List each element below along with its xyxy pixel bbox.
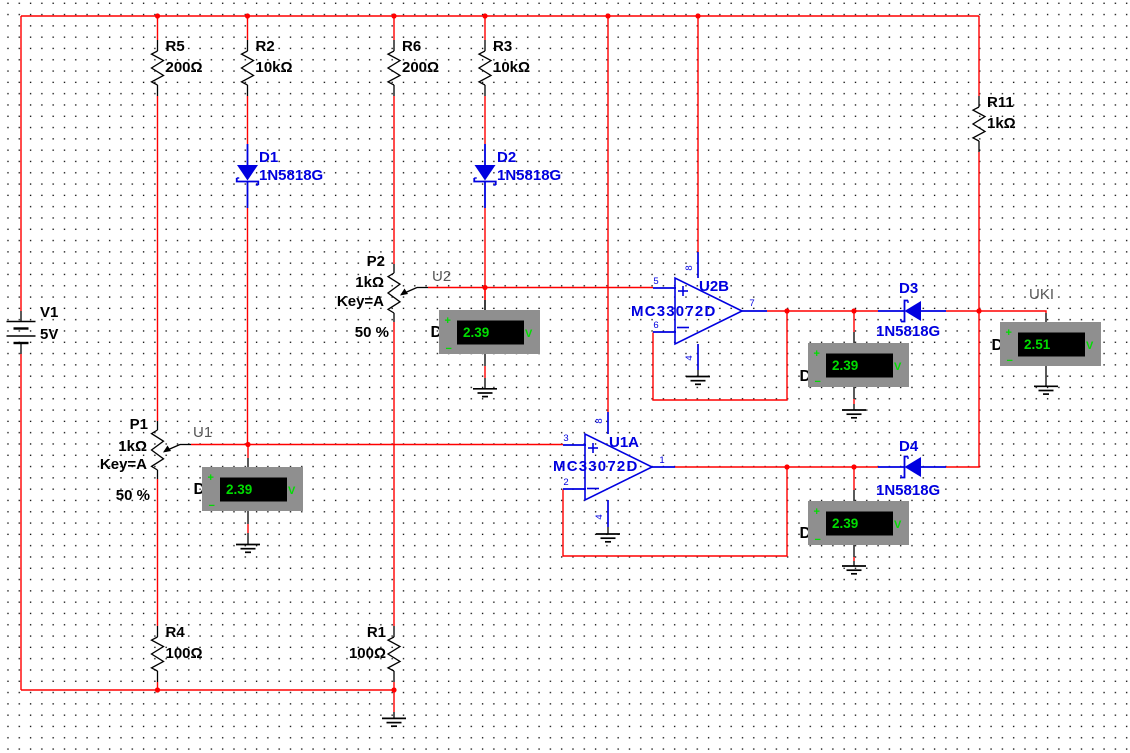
wire R5 to P1 <box>157 96 159 421</box>
wire U2B output <box>767 310 878 312</box>
wire U1A output <box>675 466 878 468</box>
net label U1 <box>193 424 212 441</box>
svg-text:1N5818G: 1N5818G <box>876 482 940 499</box>
junction top U1A power <box>605 13 610 18</box>
junction node UKI <box>976 308 981 313</box>
wire V1 to bottom <box>20 354 22 690</box>
svg-text:1N5818G: 1N5818G <box>497 167 561 184</box>
svg-text:8: 8 <box>684 265 695 270</box>
svg-text:2.39: 2.39 <box>832 358 858 373</box>
svg-text:1: 1 <box>659 455 664 466</box>
wire column R2 top <box>247 16 249 40</box>
svg-text:V1: V1 <box>40 304 58 321</box>
svg-text:+: + <box>445 315 451 327</box>
svg-text:4: 4 <box>594 514 605 519</box>
wire column U1A power <box>607 16 609 412</box>
net label UKI <box>1029 286 1054 303</box>
svg-text:50 %: 50 % <box>355 324 389 341</box>
svg-text:V: V <box>894 361 902 373</box>
wire column R5 top <box>157 16 159 40</box>
svg-text:D3: D3 <box>899 280 918 297</box>
svg-text:200Ω: 200Ω <box>166 59 203 76</box>
ground voltmeter U1A output <box>842 545 866 574</box>
junction U1A output voltmeter <box>851 464 856 469</box>
svg-text:+: + <box>814 506 820 518</box>
svg-text:Key=A: Key=A <box>337 293 384 310</box>
svg-text:1N5818G: 1N5818G <box>259 167 323 184</box>
potentiometer P1 <box>100 416 164 504</box>
ground U1A pin4 <box>596 527 620 542</box>
resistor R5 <box>152 38 203 96</box>
wire D1 to node U1 <box>247 208 249 445</box>
resistor R6 <box>388 38 439 96</box>
junction U1A output feedback <box>784 464 789 469</box>
svg-text:P2: P2 <box>367 253 385 270</box>
junction top U2B power <box>695 13 700 18</box>
wire R6 to P2 <box>393 96 395 264</box>
wire top bus <box>21 15 979 17</box>
svg-text:1kΩ: 1kΩ <box>118 438 147 455</box>
wire column R6 top <box>393 16 395 40</box>
svg-text:R3: R3 <box>493 38 512 55</box>
diode D3 <box>876 280 946 340</box>
svg-text:V: V <box>894 519 902 531</box>
ground R1 <box>382 718 406 726</box>
potentiometer P2 <box>337 253 400 341</box>
svg-text:2.39: 2.39 <box>226 482 252 497</box>
svg-text:V: V <box>288 485 296 497</box>
ground U2B pin4 <box>686 370 710 384</box>
svg-text:100Ω: 100Ω <box>166 645 203 662</box>
wire D2 to node U2 <box>484 208 486 310</box>
junction top R3 <box>482 13 487 18</box>
svg-text:Key=A: Key=A <box>100 456 147 473</box>
resistor R4 <box>152 624 203 682</box>
svg-text:+: + <box>1006 327 1012 339</box>
svg-text:100Ω: 100Ω <box>349 645 386 662</box>
svg-text:−: − <box>209 500 215 512</box>
resistor R1 <box>349 624 400 682</box>
svg-text:1N5818G: 1N5818G <box>876 323 940 340</box>
svg-text:R11: R11 <box>987 94 1014 111</box>
wire R2 to D1 <box>247 96 249 144</box>
svg-text:−: − <box>1007 355 1013 367</box>
svg-text:50 %: 50 % <box>116 487 150 504</box>
svg-text:R5: R5 <box>166 38 185 55</box>
resistor R11 <box>973 94 1016 152</box>
wire column U2B power <box>697 16 699 252</box>
svg-text:2.39: 2.39 <box>463 325 489 340</box>
junction top R5 <box>155 13 160 18</box>
svg-text:−: − <box>446 343 452 355</box>
wire column R11 top <box>978 16 980 96</box>
diode D1 <box>237 144 323 208</box>
wire R4 to bottom bus <box>157 682 159 690</box>
svg-text:2.51: 2.51 <box>1024 337 1051 352</box>
wire D3 to node UKI <box>946 310 979 312</box>
svg-text:2.39: 2.39 <box>832 516 858 531</box>
svg-text:5: 5 <box>653 276 658 287</box>
svg-text:10kΩ: 10kΩ <box>256 59 293 76</box>
svg-text:R4: R4 <box>166 624 186 641</box>
voltmeter UKI <box>992 322 1102 367</box>
svg-text:+: + <box>208 472 214 484</box>
wire bottom bus <box>21 689 394 691</box>
svg-text:U2B: U2B <box>699 278 729 295</box>
svg-text:U2: U2 <box>432 268 451 285</box>
svg-text:8: 8 <box>594 418 605 423</box>
voltmeter U2B output <box>800 311 910 388</box>
svg-text:U1: U1 <box>193 424 212 441</box>
svg-text:1kΩ: 1kΩ <box>987 115 1016 132</box>
junction top R2 <box>245 13 250 18</box>
junction node U2 wiper <box>482 285 487 290</box>
wire column R3 top <box>484 16 486 40</box>
svg-text:10kΩ: 10kΩ <box>493 59 530 76</box>
svg-text:MC33072D: MC33072D <box>553 458 638 475</box>
svg-text:D4: D4 <box>899 438 919 455</box>
wire node UKI to R11 and D4 <box>946 152 979 467</box>
svg-text:−: − <box>815 376 821 388</box>
svg-text:V: V <box>525 328 533 340</box>
ground voltmeter UKI <box>1034 366 1058 394</box>
svg-text:MC33072D: MC33072D <box>631 303 716 320</box>
svg-text:U1A: U1A <box>609 434 639 451</box>
svg-text:5V: 5V <box>40 326 58 343</box>
resistor R2 <box>242 38 293 96</box>
wire P1 to R4 <box>157 479 159 626</box>
resistor R3 <box>479 38 530 96</box>
op-amp U1A <box>553 412 675 527</box>
svg-text:2: 2 <box>563 477 568 488</box>
svg-text:V: V <box>1086 340 1094 352</box>
svg-text:6: 6 <box>653 320 658 331</box>
ground voltmeter U2B output <box>842 387 866 418</box>
diode D2 <box>474 144 561 208</box>
op-amp U2B <box>631 252 767 370</box>
svg-text:D1: D1 <box>259 149 278 166</box>
svg-text:200Ω: 200Ω <box>402 59 439 76</box>
voltmeter U1A output <box>800 467 910 546</box>
svg-text:7: 7 <box>749 298 754 309</box>
junction top R6 <box>391 13 396 18</box>
svg-text:1kΩ: 1kΩ <box>355 274 384 291</box>
battery V1 <box>7 304 59 354</box>
svg-text:R1: R1 <box>367 624 386 641</box>
wire R3 to D2 <box>484 96 486 144</box>
wire node UKI to voltmeter <box>979 311 1046 322</box>
wire P2 wiper to U2B pin5 <box>400 288 653 296</box>
diode D4 <box>876 438 946 499</box>
svg-text:+: + <box>814 348 820 360</box>
wire P1 wiper to U1A pin3 <box>163 445 563 453</box>
svg-text:D2: D2 <box>497 149 516 166</box>
junction U2B output feedback <box>784 308 789 313</box>
junction bottom R4 <box>155 687 160 692</box>
wire P2 to R1 <box>393 322 395 626</box>
junction bottom R1 <box>391 687 396 692</box>
wire R1 ground stub <box>393 690 395 718</box>
wire U1A feedback <box>563 467 787 556</box>
ground voltmeter U1 <box>236 511 260 552</box>
svg-text:UKI: UKI <box>1029 286 1054 303</box>
svg-text:R2: R2 <box>256 38 275 55</box>
wire R1 to bottom bus <box>393 682 395 690</box>
junction U2B output voltmeter <box>851 308 856 313</box>
ground voltmeter U2 <box>473 354 497 397</box>
svg-text:R6: R6 <box>402 38 421 55</box>
svg-text:−: − <box>815 534 821 546</box>
svg-text:P1: P1 <box>130 416 148 433</box>
wire U2B feedback <box>653 311 787 400</box>
voltmeter U2 node <box>431 288 541 356</box>
net label U2 <box>432 268 451 285</box>
svg-text:3: 3 <box>563 433 568 444</box>
wire left vertical to V1 <box>20 16 22 311</box>
svg-text:4: 4 <box>684 355 695 360</box>
voltmeter U1 node <box>194 445 304 513</box>
junction node U1 wiper <box>245 442 250 447</box>
